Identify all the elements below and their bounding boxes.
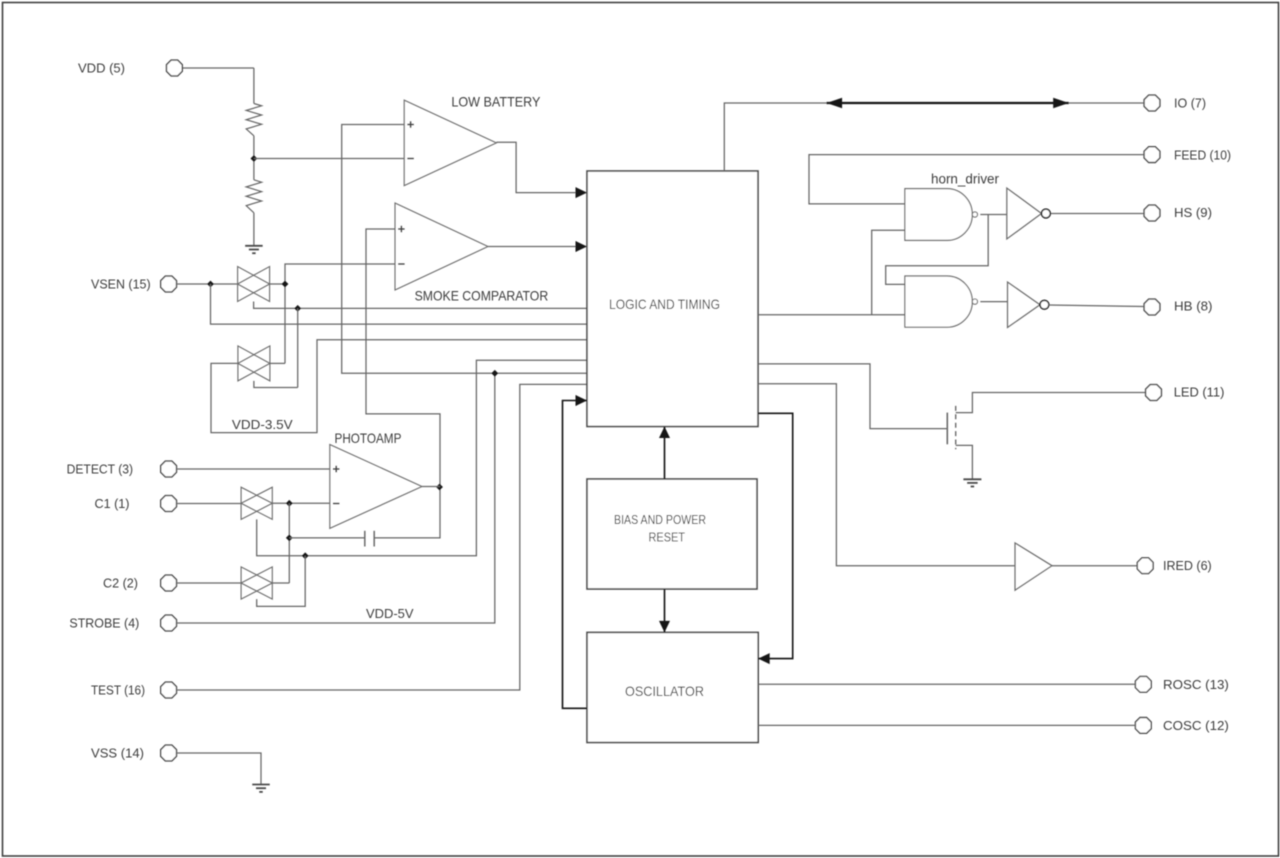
svg-text:IRED (6): IRED (6) [1163,558,1212,573]
svg-text:C1 (1): C1 (1) [95,496,130,511]
svg-text:STROBE (4): STROBE (4) [69,616,139,631]
svg-text:BIAS AND POWER: BIAS AND POWER [614,512,706,527]
svg-text:HS (9): HS (9) [1174,205,1212,220]
svg-text:IO (7): IO (7) [1174,96,1206,111]
svg-text:C2 (2): C2 (2) [103,576,138,591]
svg-text:VSEN (15): VSEN (15) [91,277,151,292]
svg-text:COSC (12): COSC (12) [1163,718,1229,733]
svg-text:LOW BATTERY: LOW BATTERY [451,94,541,110]
svg-text:VSS (14): VSS (14) [91,746,144,761]
svg-text:DETECT (3): DETECT (3) [67,462,133,477]
svg-text:FEED (10): FEED (10) [1174,147,1231,162]
svg-text:HB (8): HB (8) [1174,299,1213,314]
svg-text:SMOKE COMPARATOR: SMOKE COMPARATOR [415,288,549,304]
svg-text:horn_driver: horn_driver [931,171,999,187]
svg-text:TEST (16): TEST (16) [91,683,145,698]
svg-text:VDD (5): VDD (5) [78,61,125,76]
svg-text:PHOTOAMP: PHOTOAMP [335,430,402,446]
svg-text:LED (11): LED (11) [1174,385,1225,400]
svg-text:VDD-5V: VDD-5V [366,606,414,621]
svg-text:LOGIC AND TIMING: LOGIC AND TIMING [609,296,720,312]
svg-text:VDD-3.5V: VDD-3.5V [232,417,293,432]
svg-text:RESET: RESET [649,529,686,544]
svg-text:OSCILLATOR: OSCILLATOR [625,683,704,699]
svg-text:ROSC (13): ROSC (13) [1163,677,1229,692]
